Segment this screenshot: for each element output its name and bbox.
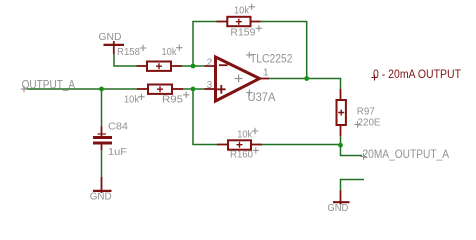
resistor R160 [217, 140, 262, 149]
svg-text:220E: 220E [358, 117, 381, 128]
junction node at op-amp pin 3 / R160 [191, 87, 196, 92]
svg-text:10k: 10k [162, 47, 178, 58]
op-amp plus marker [217, 85, 226, 94]
ground symbol bottom-left (C84) [93, 177, 112, 193]
junction node at op-amp pin 2 / feedback [191, 64, 196, 69]
svg-text:R159: R159 [230, 27, 255, 38]
ground symbol top (at R158 input) [104, 41, 125, 54]
svg-text:GND: GND [327, 202, 348, 214]
wire op-amp output to R97 [269, 79, 341, 90]
resistor R95 [137, 85, 183, 94]
svg-text:R97: R97 [357, 107, 375, 118]
wire pin3 node down to R160 [193, 89, 217, 145]
svg-text:10k: 10k [237, 130, 253, 141]
svg-text:TLC2252: TLC2252 [250, 54, 293, 66]
wire R160 right to output node [262, 144, 341, 146]
svg-text:1uF: 1uF [108, 146, 127, 158]
svg-text:OUTPUT_A: OUTPUT_A [22, 80, 76, 92]
op-amp minus marker [219, 64, 228, 66]
op-amp output pin 1 lead [259, 78, 269, 80]
svg-text:0 - 20mA OUTPUT: 0 - 20mA OUTPUT [373, 69, 461, 81]
op-amp pin 3 lead (non-inverting) [205, 88, 216, 90]
junction node feedback / output [304, 76, 309, 81]
svg-text:10k: 10k [124, 94, 140, 105]
op-amp pin 2 lead (inverting) [205, 65, 216, 67]
ground symbol bottom-right [333, 191, 350, 205]
op-amp U1 triangle [216, 57, 260, 101]
wire right GND stub [341, 180, 365, 191]
junction node R97 / R160 / 20MA_OUTPUT_A [338, 143, 343, 148]
svg-text:2: 2 [207, 58, 213, 69]
svg-text:R95: R95 [162, 94, 183, 105]
svg-text:U37A: U37A [248, 92, 276, 104]
resistor R159 (feedback) [217, 17, 261, 26]
junction node at C84 tap [99, 87, 104, 92]
svg-text:R160: R160 [230, 149, 253, 160]
svg-text:GND: GND [90, 191, 112, 203]
wire R158 to op-amp pin 2 [182, 65, 205, 67]
svg-text:C84: C84 [108, 121, 128, 133]
capacitor C84 (polarized) [93, 127, 112, 151]
resistor R97 (vertical) [337, 89, 346, 136]
svg-text:GND: GND [99, 31, 122, 43]
wire C84 branch vertical [101, 89, 103, 127]
op-amp origin cross [235, 75, 243, 83]
resistor R158 [137, 62, 183, 71]
svg-text:20MA_OUTPUT_A: 20MA_OUTPUT_A [363, 149, 450, 161]
wire net 20MA_OUTPUT_A stub [341, 145, 363, 156]
svg-text:3: 3 [207, 80, 213, 91]
wire C84 to GND [101, 150, 103, 177]
wire R97 bottom to junction [340, 136, 342, 146]
svg-text:R158: R158 [117, 47, 140, 58]
wire feedback left vertical [193, 22, 217, 67]
wire feedback top right to output [261, 22, 307, 79]
wire GND to R158 vertical+horizontal [114, 54, 137, 66]
svg-text:10k: 10k [234, 5, 250, 16]
wire net OUTPUT_A horizontal segment to op-amp pin 3 [27, 88, 138, 90]
svg-text:1: 1 [263, 68, 269, 79]
